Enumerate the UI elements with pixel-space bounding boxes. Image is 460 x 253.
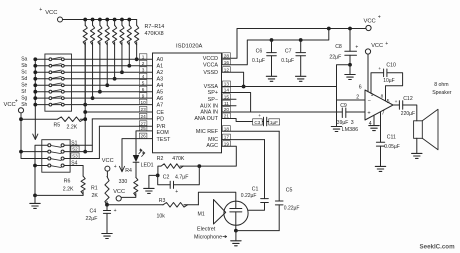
svg-text:2.2K: 2.2K — [67, 125, 78, 131]
svg-text:1: 1 — [142, 54, 145, 59]
svg-text:5: 5 — [142, 80, 145, 85]
node rail junctions — [327, 27, 352, 31]
svg-text:R2: R2 — [157, 156, 164, 162]
svg-text:VCC: VCC — [45, 10, 57, 16]
capacitor C4 22uF — [86, 205, 117, 234]
capacitor C6 0.1uF — [252, 40, 276, 76]
ground for C11 — [375, 166, 385, 171]
svg-text:VCCD: VCCD — [203, 56, 218, 62]
svg-text:0.1µF: 0.1µF — [281, 58, 294, 64]
svg-text:+: + — [175, 189, 178, 195]
svg-text:2: 2 — [142, 61, 145, 66]
junction dots on VCC rail — [83, 18, 131, 22]
ground for C7 — [296, 76, 306, 81]
IC U2 ISD1020A body — [153, 53, 222, 153]
power terminal VCC (for R1 bias) — [102, 158, 117, 171]
ground arrow for switch bus — [33, 134, 38, 140]
wire ground rail to R6 — [35, 194, 83, 196]
node decoupling rail dots — [270, 38, 303, 42]
svg-text:−: − — [368, 98, 371, 104]
wire VSSD pin 12 to VSSA — [222, 72, 246, 88]
svg-text:VCC: VCC — [102, 158, 114, 164]
svg-text:S3: S3 — [72, 153, 78, 158]
svg-text:SP−: SP− — [208, 97, 218, 103]
label R7-R14 470Kx8 — [145, 24, 165, 37]
svg-text:28: 28 — [224, 53, 230, 58]
svg-text:A6: A6 — [157, 96, 164, 102]
svg-text:+: + — [378, 14, 381, 20]
wire ANA OUT pin 21 to C3 — [222, 119, 264, 122]
capacitor C1 0.22uF — [241, 140, 268, 211]
svg-text:5: 5 — [387, 99, 390, 105]
svg-text:+: + — [355, 44, 358, 50]
node C8 ground junction — [348, 63, 352, 67]
svg-text:R3: R3 — [159, 198, 166, 204]
switch Se — [21, 82, 64, 88]
IC left pin labels — [157, 57, 171, 143]
svg-text:3: 3 — [142, 67, 145, 72]
svg-text:A1: A1 — [157, 64, 164, 70]
ground arrow for TEST pin — [119, 166, 124, 172]
switch Sg — [21, 95, 64, 101]
svg-text:ANA OUT: ANA OUT — [194, 116, 218, 122]
ground for R2/C2 — [144, 188, 154, 193]
wire EOM pin 25 to LED1 — [136, 131, 153, 155]
svg-text:24: 24 — [140, 114, 146, 119]
svg-text:LED1: LED1 — [141, 163, 154, 169]
svg-text:+: + — [395, 100, 398, 105]
svg-text:Speaker: Speaker — [432, 90, 452, 96]
svg-text:470KX8: 470KX8 — [145, 31, 164, 37]
svg-text:A0: A0 — [157, 57, 164, 63]
svg-text:2: 2 — [356, 95, 359, 101]
svg-text:1µF: 1µF — [270, 120, 278, 125]
ground for microphone — [231, 231, 241, 246]
node microphone ground junction — [234, 225, 238, 232]
svg-text:S2: S2 — [72, 146, 78, 151]
svg-text:8 ohm: 8 ohm — [434, 82, 448, 88]
resistor R4 330 — [119, 162, 138, 197]
label 8 ohm Speaker — [432, 82, 452, 96]
resistor R5 2.2K — [21, 117, 85, 131]
svg-text:6: 6 — [359, 85, 362, 91]
svg-text:R6: R6 — [64, 179, 71, 185]
svg-text:CE: CE — [157, 110, 165, 116]
svg-text:+: + — [114, 164, 117, 170]
svg-text:7: 7 — [382, 110, 385, 116]
svg-text:330: 330 — [119, 179, 128, 185]
switch S1 — [48, 140, 78, 147]
ground for LM386 input bus — [331, 127, 341, 132]
capacitor C9 39uF — [337, 103, 365, 126]
svg-text:4: 4 — [142, 74, 145, 79]
pin number boxes right side — [222, 53, 230, 147]
svg-text:2K: 2K — [92, 193, 99, 199]
power terminal VCC (for LED) — [113, 189, 125, 201]
svg-text:R1: R1 — [91, 186, 98, 192]
svg-text:0.22µF: 0.22µF — [241, 193, 257, 199]
svg-text:Sd: Sd — [21, 76, 27, 82]
wire SP+ pin 14 down to signal line — [222, 93, 251, 113]
op-amp U1 LM386 — [356, 85, 393, 127]
wire TEST pin 26 to ground arrow — [122, 139, 153, 172]
node common bus of Sa-Sh switches — [33, 57, 37, 139]
svg-text:10µF: 10µF — [383, 78, 395, 84]
svg-text:22µF: 22µF — [329, 54, 341, 60]
svg-text:R4: R4 — [125, 168, 132, 174]
svg-text:EOM: EOM — [157, 130, 170, 136]
svg-text:C6: C6 — [256, 48, 263, 54]
wire VCC to LM386 pin 6 — [367, 54, 369, 92]
ground for LM386 pin 4 — [369, 115, 379, 130]
svg-text:C10: C10 — [386, 62, 396, 68]
speaker LS1 8 ohm — [414, 109, 438, 150]
switch Sa — [21, 57, 64, 63]
svg-text:20: 20 — [224, 107, 230, 112]
label LED1 — [141, 163, 154, 169]
wire from left VCC terminal down to S2/S3 — [19, 113, 48, 159]
svg-text:VCC: VCC — [113, 189, 125, 195]
wire ANA IN pin 20 signal line to C9 — [222, 111, 343, 113]
switch Sf — [21, 89, 64, 95]
wire S1 common down to ground rail — [33, 145, 48, 197]
svg-text:12: 12 — [224, 67, 230, 72]
svg-text:15: 15 — [224, 94, 230, 99]
svg-text:8: 8 — [381, 93, 384, 99]
node R2/C2 left junction — [156, 174, 160, 178]
svg-text:17: 17 — [224, 135, 230, 140]
svg-text:9: 9 — [142, 93, 145, 98]
svg-text:39µF: 39µF — [337, 120, 349, 126]
capacitor C10 10uF gain — [371, 62, 403, 101]
svg-text:+: + — [367, 111, 370, 117]
svg-text:470K: 470K — [172, 156, 185, 162]
wire MIC REF pin 18 to C5 — [222, 130, 280, 132]
svg-text:0.22µF: 0.22µF — [284, 205, 300, 211]
svg-text:A3: A3 — [157, 77, 164, 83]
svg-text:MIC REF: MIC REF — [196, 129, 219, 135]
svg-text:4.7µF: 4.7µF — [175, 174, 188, 180]
ground for C4 — [102, 234, 112, 239]
junction dots resistor columns to address rows — [83, 57, 138, 106]
capacitor C5 0.22uF — [275, 131, 299, 230]
IC right pin labels — [194, 56, 218, 149]
svg-text:Sc: Sc — [21, 69, 27, 75]
svg-text:+: + — [385, 41, 388, 47]
svg-text:M1: M1 — [198, 212, 205, 218]
svg-text:21: 21 — [224, 114, 230, 119]
svg-text:Sa: Sa — [21, 57, 27, 63]
svg-text:Sf: Sf — [21, 89, 26, 95]
switch S2 — [48, 146, 79, 154]
svg-text:+: + — [258, 114, 261, 119]
capacitor C12 220uF output — [393, 96, 415, 117]
svg-text:3: 3 — [351, 120, 354, 126]
svg-text:11: 11 — [224, 101, 229, 106]
svg-text:Sb: Sb — [21, 63, 27, 69]
switch Sc — [21, 69, 64, 75]
switch bank box S1-S4 — [42, 140, 70, 173]
node CE riser to S2 row — [83, 150, 87, 154]
svg-text:A5: A5 — [157, 90, 164, 96]
svg-text:18: 18 — [224, 126, 230, 131]
capacitor C8 22uF — [329, 29, 358, 65]
wire VCCD pin 28 to VCC rail — [222, 29, 366, 59]
svg-text:AGC: AGC — [206, 143, 218, 149]
svg-text:14: 14 — [224, 88, 230, 93]
svg-text:+: + — [15, 99, 18, 105]
svg-text:AUX IN: AUX IN — [200, 103, 218, 109]
wire PD pin 24 riser to S1 — [64, 119, 152, 152]
svg-text:2.2K: 2.2K — [63, 186, 74, 192]
svg-text:ANA IN: ANA IN — [200, 110, 218, 116]
svg-text:A7: A7 — [157, 102, 164, 108]
svg-text:23: 23 — [140, 107, 146, 112]
power terminal VCC (amplifier) — [365, 41, 388, 54]
wire speaker to ground — [416, 138, 418, 153]
svg-text:+: + — [114, 208, 117, 214]
svg-text:10k: 10k — [157, 214, 166, 220]
svg-text:26: 26 — [140, 134, 146, 139]
wire VCCA pin 16 to decoupling rail — [222, 29, 329, 65]
node AGC junction — [197, 164, 201, 168]
svg-text:6: 6 — [142, 87, 145, 92]
svg-text:16: 16 — [224, 60, 230, 65]
power terminal VCC (top right) — [364, 14, 381, 30]
svg-text:C4: C4 — [90, 209, 97, 215]
wire mic bias line to R3 — [107, 204, 163, 206]
svg-text:0.1µF: 0.1µF — [252, 58, 265, 64]
svg-text:C9: C9 — [340, 103, 347, 109]
switch Sd — [21, 76, 64, 82]
svg-text:A4: A4 — [157, 83, 164, 89]
ground for C6 — [266, 76, 276, 81]
resistor R6 2.2K — [63, 166, 85, 196]
wire junction to ground — [149, 175, 158, 188]
wire C12 to speaker — [403, 105, 417, 121]
capacitor C11 0.05uF bypass — [376, 112, 399, 166]
wire VCC rail to pull-up resistors — [63, 19, 137, 21]
svg-text:10: 10 — [140, 100, 146, 105]
wire AGC pin 19 around IC to R2/C2 — [199, 146, 236, 166]
svg-text:S1: S1 — [71, 140, 77, 146]
svg-text:+: + — [39, 7, 42, 13]
wire ground bus to LM386 input — [337, 65, 366, 127]
switch Sh — [21, 102, 64, 108]
svg-text:C5: C5 — [286, 187, 293, 193]
switch S3 — [48, 153, 79, 161]
svg-text:C12: C12 — [403, 96, 413, 102]
switch S4 — [48, 161, 78, 168]
svg-text:Electret: Electret — [197, 227, 216, 233]
resistor R3 10k — [157, 198, 199, 220]
svg-text:220µF: 220µF — [401, 111, 415, 117]
svg-text:R5: R5 — [54, 122, 61, 128]
svg-text:Microphone: Microphone — [194, 235, 222, 241]
microphone M1 electret — [198, 200, 249, 226]
switch Sb — [21, 63, 64, 69]
svg-text:SP+: SP+ — [208, 90, 218, 96]
svg-text:+: + — [378, 67, 381, 72]
power terminal VCC (left) — [4, 99, 24, 113]
label LM386 — [342, 127, 358, 133]
wire CE pin 23 to S2 — [83, 42, 152, 152]
svg-text:A2: A2 — [157, 70, 164, 76]
wire microphone ground rail to C5 — [236, 230, 279, 232]
ground for C8 — [345, 65, 355, 80]
resistor R1 2K — [91, 171, 109, 205]
LED LED1 — [133, 149, 145, 162]
wire AUX IN pin 11 stub — [222, 105, 237, 107]
node mic bias junction — [105, 203, 109, 207]
capacitor C2 4.7uF — [158, 166, 200, 195]
svg-text:C2: C2 — [163, 174, 170, 180]
wire SP- pin 15 stub — [222, 98, 237, 100]
svg-text:R7–R14: R7–R14 — [145, 24, 165, 30]
svg-text:C7: C7 — [285, 48, 292, 54]
wire VSSA pin 13 ground line — [222, 86, 337, 88]
svg-text:25: 25 — [140, 126, 146, 131]
label Electret Microphone — [194, 227, 227, 241]
ground for speaker — [412, 153, 422, 158]
svg-text:VCCA: VCCA — [203, 62, 218, 68]
svg-text:C11: C11 — [387, 135, 396, 141]
resistor R2 470K — [157, 156, 200, 175]
wire MIC pin 17 to C1 — [222, 139, 265, 141]
pin number boxes left side — [139, 54, 147, 139]
svg-text:ISD1020A: ISD1020A — [176, 44, 203, 50]
svg-text:C8: C8 — [335, 44, 342, 50]
wire R3 to microphone top — [198, 192, 235, 205]
svg-text:19: 19 — [224, 141, 230, 146]
power terminal VCC (top left) — [39, 7, 62, 22]
svg-text:TEST: TEST — [157, 137, 171, 143]
watermark SeekIC.com — [420, 244, 456, 251]
svg-text:C1: C1 — [252, 187, 259, 193]
svg-text:22µF: 22µF — [86, 216, 98, 222]
svg-text:PD: PD — [157, 117, 165, 123]
svg-text:0.05µF: 0.05µF — [384, 144, 400, 150]
capacitor C3 1uF — [253, 114, 280, 126]
svg-text:Sh: Sh — [21, 102, 27, 108]
svg-text:Sg: Sg — [21, 95, 27, 101]
wire address lines A0-A7 from switches to IC — [35, 59, 152, 104]
wire S2 row lead — [64, 151, 85, 153]
svg-text:SeekIC.com: SeekIC.com — [420, 244, 456, 251]
capacitor C7 0.1uF — [281, 40, 305, 76]
wire P/R pin 27 riser to S3 — [64, 126, 152, 158]
svg-text:Se: Se — [21, 82, 27, 88]
svg-text:C3: C3 — [254, 120, 260, 125]
svg-text:LM386: LM386 — [342, 127, 358, 133]
resistor bank R7-R14 470Kx8 pull-ups — [83, 20, 139, 105]
svg-text:VCC: VCC — [371, 43, 383, 49]
ground symbol below S4 — [30, 195, 40, 208]
svg-text:VSSD: VSSD — [203, 70, 218, 76]
svg-text:VCC: VCC — [364, 18, 376, 24]
label ISD1020A — [176, 44, 203, 50]
svg-text:13: 13 — [224, 82, 230, 87]
switch bank box Sa-Sh — [45, 54, 72, 111]
